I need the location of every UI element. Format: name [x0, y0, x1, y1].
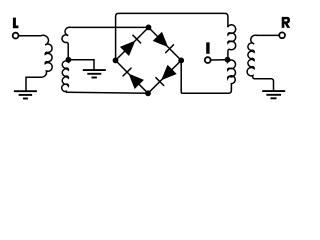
- junction dot: bridge bottom vertex: [145, 90, 151, 96]
- junction dot: bridge right vertex: [178, 58, 184, 64]
- label R: [282, 17, 291, 28]
- junction dot: T2 primary center tap: [225, 57, 231, 63]
- terminal L: [13, 33, 19, 39]
- ground for T1 primary: [14, 91, 37, 98]
- wire: L terminal to T1 primary: [19, 35, 41, 37]
- wire: R terminal to T2 secondary top: [257, 34, 278, 36]
- wire: I terminal to T2 primary center tap: [211, 59, 227, 61]
- ground for T1 center tap: [83, 70, 106, 77]
- junction dot: T1 secondary center tap: [66, 57, 72, 63]
- label I: [206, 42, 209, 53]
- transformer T1 primary winding: [26, 35, 52, 90]
- junction dot: bridge top vertex: [146, 25, 152, 31]
- junction dot: bridge left vertex: [113, 58, 119, 64]
- diode D4 (bridge lower-right edge, anode right vertex, cathode bottom vertex): [148, 60, 181, 93]
- transformer T2 secondary winding: [247, 35, 273, 90]
- wire: T1 center tap to ground: [68, 60, 94, 70]
- ring modulator circuit schematic: [0, 0, 316, 123]
- wire: rail from T1 secondary top to bridge top vertex: [72, 26, 149, 28]
- terminal R: [279, 32, 285, 38]
- wire: bridge right vertex down and over to T2 primary bottom: [181, 60, 231, 93]
- diode D3 (bridge lower-left edge, anode bottom vertex, cathode left vertex): [116, 60, 149, 93]
- transformer T2 primary winding (top half): [228, 25, 236, 60]
- wire: top rail from bridge left vertex up and over to T2 primary top: [116, 13, 228, 60]
- diode D2 (bridge upper-right edge, anode top vertex, cathode right vertex): [149, 27, 182, 60]
- diode D1 (bridge upper-left edge, anode left vertex, cathode top vertex): [116, 27, 149, 60]
- transformer T1 secondary winding (top half): [62, 27, 71, 60]
- ground for T2 secondary: [262, 91, 285, 98]
- transformer T2 primary winding (bottom half): [228, 60, 236, 89]
- label L: [13, 18, 19, 29]
- transformer T1 secondary winding (bottom half): [62, 60, 148, 94]
- terminal I: [205, 57, 211, 63]
